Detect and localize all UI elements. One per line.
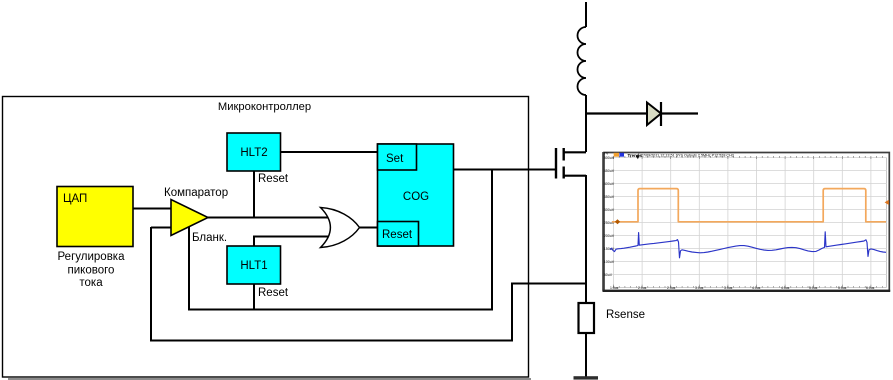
inductor L1 [578,2,587,152]
svg-text:4.5us: 4.5us [781,286,790,290]
svg-text:300uV: 300uV [604,208,615,212]
svg-text:Set: Set [386,153,404,165]
oscilloscope screenshot [603,152,891,291]
wire HLT1 Reset pin down to blanking net [253,284,255,310]
svg-text:3.5us: 3.5us [724,286,733,290]
microcontroller block boundary [3,97,532,380]
svg-text:27/09/2011 12:13:51 SYS Output: 27/09/2011 12:13:51 SYS Outputs 2.5MHz P… [641,153,734,157]
svg-text:400uV: 400uV [604,182,615,186]
svg-text:Reset: Reset [258,173,289,185]
svg-text:450uV: 450uV [604,169,615,173]
wire DAC output to comparator input [133,208,172,210]
oscilloscope header bar [614,153,734,159]
current sense feedback wire [150,227,586,341]
svg-text:Rsense: Rsense [606,309,645,321]
DAC block ЦАП [57,187,133,247]
resistor Rsense [579,303,595,333]
wire Rsense to ground [585,333,587,377]
wire OR gate output to COG Reset [359,227,378,229]
COG Reset pin box [378,222,419,247]
blanking feedback wire (comparator blank input to gate-drive net) [188,170,493,311]
wire current sense to comparator second input [151,227,172,229]
svg-text:5.5us: 5.5us [838,286,847,290]
svg-text:Бланк.: Бланк. [192,232,227,244]
wire MOSFET source to Rsense [585,175,587,303]
svg-text:HLT2: HLT2 [240,147,267,159]
svg-text:4.0us: 4.0us [752,286,761,290]
svg-text:6.0us: 6.0us [866,286,875,290]
oscilloscope orange gate trace [612,189,889,225]
svg-text:Компаратор: Компаратор [164,187,228,199]
svg-text:3.0us: 3.0us [695,286,704,290]
svg-text:350uV: 350uV [604,195,615,199]
HLT2 block [227,133,281,171]
label Регулировка пикового тока [58,251,126,289]
oscilloscope y axis labels [604,152,615,277]
svg-text:5.0us: 5.0us [809,286,818,290]
svg-text:HLT1: HLT1 [240,260,267,272]
oscilloscope bottom tick row [614,285,883,288]
HLT1 block [227,246,281,284]
svg-text:2.5us: 2.5us [667,286,676,290]
COG block [378,144,454,246]
wire COG output to MOSFET gate [454,169,556,171]
svg-text:COG: COG [403,191,429,203]
OR gate U2 [321,208,360,248]
wire HLT1 output up to OR gate lower input [253,236,328,246]
svg-text:Микроконтроллер: Микроконтроллер [218,101,311,113]
diode D1 [586,102,698,126]
svg-text:Reset: Reset [382,229,413,241]
COG Set pin box [378,144,417,170]
wire HLT2 output to COG Set [281,151,378,153]
svg-text:Reset: Reset [258,287,289,299]
MOSFET Q1 [556,148,586,179]
oscilloscope grid [612,158,887,288]
wire comparator output to OR gate input (net with HLT2 Reset) [206,217,328,219]
wire HLT2 Reset pin down to comparator output net [253,171,255,218]
svg-text:тока: тока [79,277,103,289]
svg-text:2.0us: 2.0us [638,286,647,290]
comparator U1 [164,187,228,236]
svg-text:1.5us: 1.5us [610,286,619,290]
svg-text:100uV: 100uV [604,260,615,264]
svg-text:Регулировка: Регулировка [58,251,126,263]
svg-text:ЦАП: ЦАП [63,193,87,205]
svg-text:50uV: 50uV [604,273,613,277]
svg-text:пикового: пикового [68,265,115,277]
oscilloscope x axis labels [610,286,875,290]
oscilloscope blue current trace [610,232,886,258]
oscilloscope top tick row [614,156,883,159]
svg-text:500uV: 500uV [604,156,615,160]
ground [574,376,599,379]
svg-text:200uV: 200uV [604,234,615,238]
